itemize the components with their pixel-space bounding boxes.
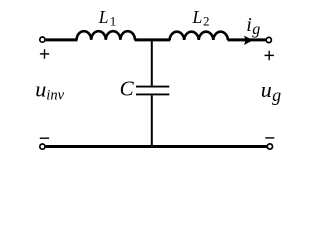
terminal bottom-right xyxy=(267,144,272,149)
minus sign right xyxy=(265,137,274,139)
plus sign left xyxy=(40,49,49,59)
inductor L1 xyxy=(77,31,135,40)
wire bottom rail xyxy=(46,145,267,148)
plus sign right xyxy=(265,51,274,61)
current arrow ig xyxy=(244,36,253,45)
node junction to capacitor xyxy=(151,40,153,86)
svg-text:L2: L2 xyxy=(192,7,210,29)
svg-text:ug: ug xyxy=(261,77,281,105)
terminal top-right xyxy=(266,37,271,42)
wire between L1 and L2 xyxy=(135,38,171,41)
svg-text:L1: L1 xyxy=(98,7,116,29)
svg-text:ig: ig xyxy=(246,14,260,38)
minus sign left xyxy=(40,137,49,139)
svg-text:uinv: uinv xyxy=(35,76,64,103)
wire top-right segment xyxy=(228,38,266,41)
capacitor C plates xyxy=(136,87,169,95)
terminal top-left xyxy=(40,37,45,42)
terminal bottom-left xyxy=(40,144,45,149)
wire top-left segment xyxy=(46,38,78,41)
svg-text:C: C xyxy=(120,77,135,101)
inductor L2 xyxy=(170,32,228,40)
wire capacitor to bottom rail xyxy=(151,95,153,147)
